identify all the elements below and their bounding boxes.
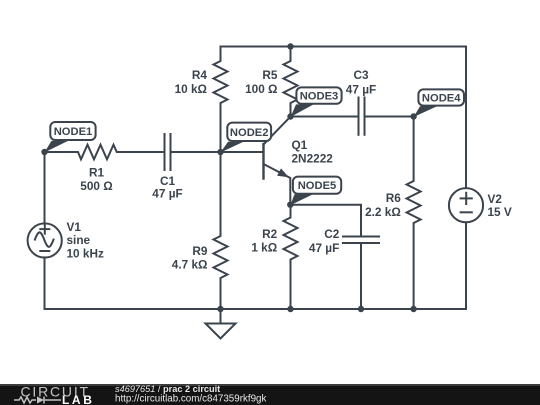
svg-text:R4: R4 — [192, 68, 208, 82]
svg-text:R5: R5 — [262, 68, 278, 82]
svg-text:http://circuitlab.com/c847359r: http://circuitlab.com/c847359rkf9gk — [115, 394, 266, 405]
svg-text:V1: V1 — [67, 220, 82, 234]
svg-text:LAB: LAB — [62, 393, 94, 405]
svg-text:2N2222: 2N2222 — [292, 151, 334, 165]
svg-text:2.2 kΩ: 2.2 kΩ — [365, 205, 401, 219]
svg-text:R6: R6 — [386, 191, 402, 205]
svg-text:NODE3: NODE3 — [300, 91, 339, 103]
svg-text:R1: R1 — [89, 166, 105, 180]
svg-text:V2: V2 — [488, 192, 503, 206]
svg-text:NODE2: NODE2 — [230, 127, 269, 139]
svg-text:NODE5: NODE5 — [298, 180, 337, 192]
svg-text:100 Ω: 100 Ω — [245, 82, 277, 96]
svg-text:R9: R9 — [192, 244, 208, 258]
svg-text:10 kΩ: 10 kΩ — [175, 82, 207, 96]
svg-text:NODE4: NODE4 — [422, 93, 461, 105]
svg-text:1 kΩ: 1 kΩ — [251, 241, 277, 255]
svg-text:C2: C2 — [324, 227, 340, 241]
svg-text:R2: R2 — [262, 227, 278, 241]
svg-text:500 Ω: 500 Ω — [80, 179, 112, 193]
svg-text:sine: sine — [67, 233, 91, 247]
svg-text:NODE1: NODE1 — [54, 126, 93, 138]
svg-text:47 µF: 47 µF — [309, 241, 339, 255]
svg-text:47 µF: 47 µF — [152, 187, 182, 201]
svg-text:10 kHz: 10 kHz — [67, 246, 104, 260]
svg-text:Q1: Q1 — [292, 138, 308, 152]
svg-text:C3: C3 — [353, 68, 369, 82]
svg-text:15 V: 15 V — [488, 205, 512, 219]
svg-text:4.7 kΩ: 4.7 kΩ — [172, 257, 208, 271]
svg-text:47 µF: 47 µF — [346, 83, 376, 97]
svg-text:s4697651 / prac 2 circuit: s4697651 / prac 2 circuit — [115, 384, 220, 394]
